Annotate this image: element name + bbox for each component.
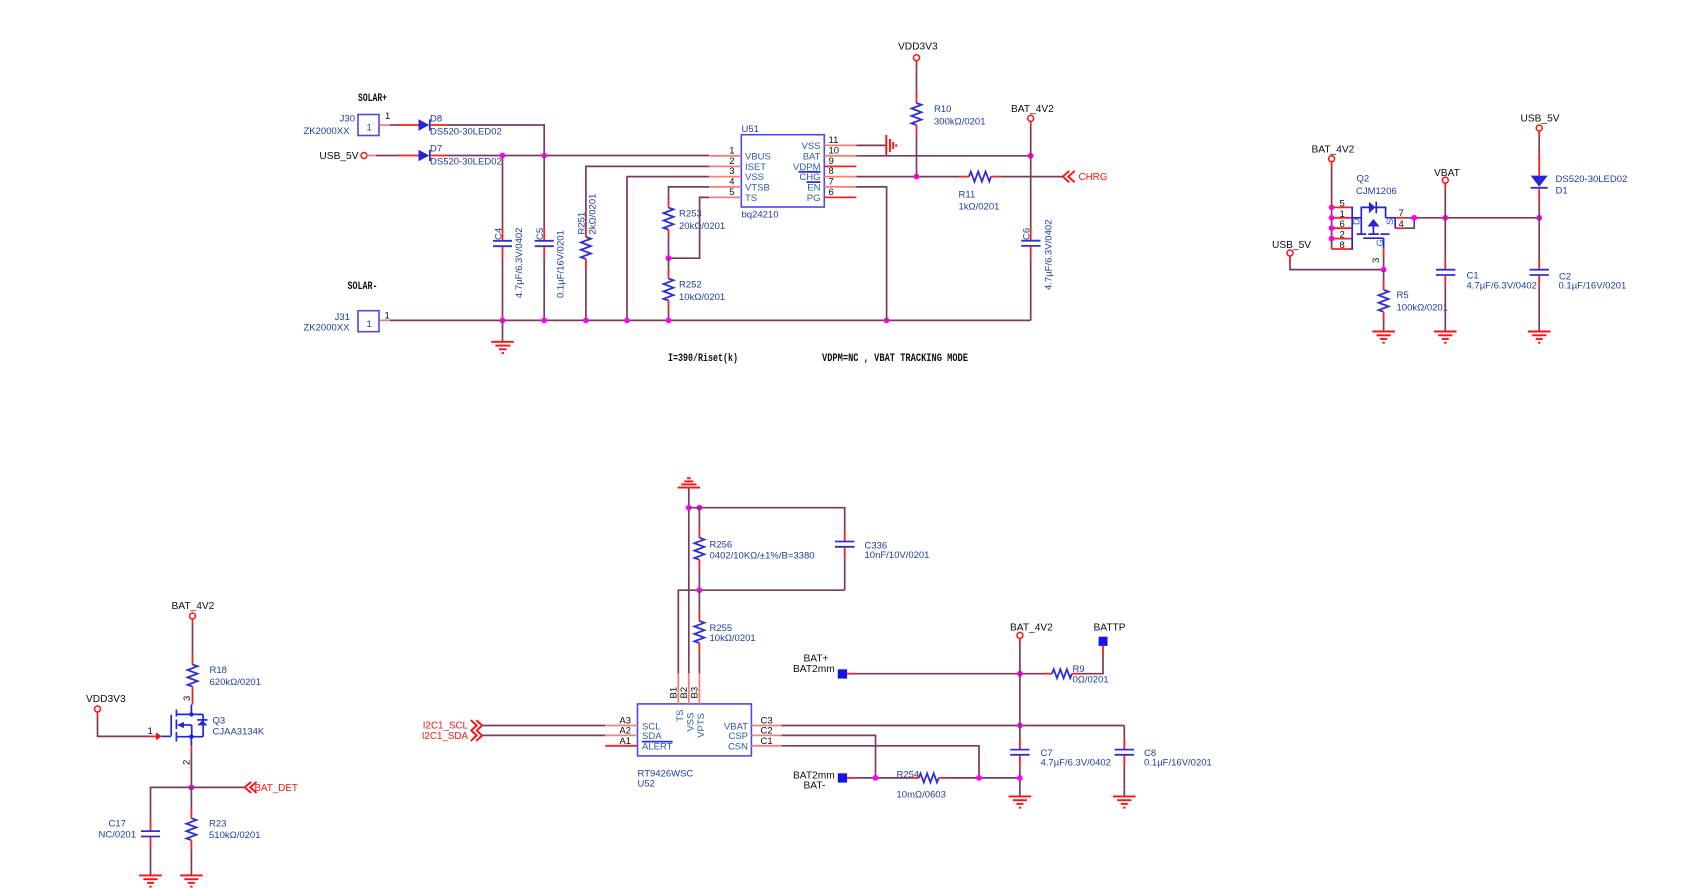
connector J31	[304, 311, 380, 334]
wire VBAT down	[1444, 183, 1446, 259]
svg-text:R253: R253	[679, 209, 702, 220]
wire top loop to C336	[689, 508, 845, 531]
svg-text:VDD3V3: VDD3V3	[86, 694, 126, 705]
wire Q2 source to VBAT/D1	[1405, 217, 1539, 219]
port I2C1_SDA	[422, 730, 482, 742]
svg-text:U51: U51	[742, 124, 759, 135]
junction	[1329, 236, 1335, 242]
junction	[697, 505, 703, 511]
junction	[666, 318, 672, 324]
svg-text:5: 5	[1340, 198, 1345, 209]
svg-text:VDPM=NC , VBAT TRACKING MODE: VDPM=NC , VBAT TRACKING MODE	[822, 353, 968, 365]
svg-text:BAT: BAT	[803, 151, 821, 162]
svg-text:R18: R18	[210, 665, 227, 676]
junction	[1536, 215, 1542, 221]
svg-text:USB_5V: USB_5V	[1272, 240, 1311, 251]
wire R11 to CHRG port	[1002, 176, 1063, 178]
svg-text:VPTS: VPTS	[696, 713, 707, 738]
capacitor C336	[835, 530, 929, 590]
junction	[624, 318, 630, 324]
resistor R253	[664, 198, 726, 259]
junction	[873, 775, 879, 781]
svg-text:Q2: Q2	[1357, 174, 1370, 185]
ground below C7	[1009, 796, 1032, 807]
svg-text:bq24210: bq24210	[742, 210, 779, 221]
pin numbers A3 A2 A1	[619, 716, 631, 747]
svg-text:VDD3V3: VDD3V3	[898, 42, 938, 53]
svg-text:NC/0201: NC/0201	[99, 830, 137, 841]
junction	[1017, 723, 1023, 729]
wire USB_5V to D7	[367, 155, 376, 157]
svg-text:I=390/Riset(k): I=390/Riset(k)	[668, 353, 738, 365]
svg-text:VSS: VSS	[801, 141, 820, 152]
junction	[500, 318, 506, 324]
resistor R252	[664, 258, 726, 320]
node BAT- pad	[793, 770, 857, 791]
port CHRG	[1063, 171, 1108, 183]
pin names SCL SDA ALERT	[642, 721, 673, 752]
svg-text:C4: C4	[494, 228, 505, 240]
junction	[541, 318, 547, 324]
ground below C17	[139, 875, 162, 886]
wire BAT_4V2 down to Q2 pins	[1331, 162, 1333, 249]
pin numbers left U51	[729, 145, 734, 198]
svg-text:ALERT: ALERT	[642, 742, 673, 753]
capacitor C1	[1436, 259, 1537, 331]
svg-text:CJM1206: CJM1206	[1356, 186, 1397, 197]
svg-text:R5: R5	[1397, 290, 1409, 301]
svg-text:1: 1	[367, 319, 372, 330]
wire pin4 to pin7 join	[1405, 218, 1414, 228]
pin A2 stub	[605, 734, 637, 736]
svg-text:BAT_4V2: BAT_4V2	[1010, 623, 1053, 634]
pin numbers right U51	[829, 135, 840, 198]
svg-text:USB_5V: USB_5V	[1521, 113, 1560, 124]
pin B2 stub	[688, 673, 690, 704]
capacitor C8	[1115, 726, 1212, 796]
svg-text:11: 11	[829, 135, 839, 146]
svg-text:0.1µF/16V/0201: 0.1µF/16V/0201	[1144, 757, 1212, 768]
wire J30 to D8	[390, 124, 399, 126]
svg-text:8: 8	[1340, 240, 1345, 251]
svg-text:20kΩ/0201: 20kΩ/0201	[679, 221, 725, 232]
svg-text:TS: TS	[675, 710, 686, 722]
svg-text:J30: J30	[340, 114, 355, 125]
svg-text:510kΩ/0201: 510kΩ/0201	[209, 830, 260, 841]
ground below C1	[1434, 332, 1457, 343]
svg-text:SOLAR+: SOLAR+	[358, 93, 387, 105]
ground (inverted, above)	[678, 478, 700, 487]
resistor R9	[1044, 664, 1109, 686]
pin A3 stub	[605, 725, 637, 727]
junction	[1381, 267, 1387, 273]
wire SDA	[482, 734, 605, 736]
power USB_5V right	[1521, 113, 1560, 131]
svg-text:100kΩ/0201: 100kΩ/0201	[1397, 302, 1448, 313]
resistor R10	[912, 61, 986, 177]
wire BAT- to R254	[857, 777, 911, 779]
pin names TS VSS VPTS	[675, 710, 707, 738]
pin 1 VBUS	[709, 155, 741, 157]
source side	[1386, 217, 1396, 219]
junction	[541, 153, 547, 159]
junction	[697, 587, 703, 593]
svg-text:SOLAR-: SOLAR-	[348, 281, 378, 293]
power VBAT	[1434, 168, 1460, 183]
svg-text:PG: PG	[807, 193, 821, 204]
svg-text:C2: C2	[761, 726, 773, 737]
pin 1 stub	[1332, 217, 1353, 219]
ground below C2	[1528, 332, 1551, 343]
wire BAT_4V2 down	[1019, 638, 1021, 725]
svg-text:B3: B3	[690, 687, 701, 699]
ground below R5	[1372, 332, 1395, 343]
svg-text:C6: C6	[1022, 228, 1033, 240]
power VDD3V3	[898, 42, 938, 61]
resistor R23	[186, 787, 260, 874]
junction	[914, 174, 920, 180]
svg-text:C5: C5	[535, 228, 546, 240]
pin names left U51	[745, 151, 771, 204]
junction	[1442, 215, 1448, 221]
body diode arrow	[1367, 219, 1379, 227]
pin 6 PG (NC)	[824, 196, 856, 198]
resistor R11	[959, 172, 1002, 213]
svg-text:0Ω/0201: 0Ω/0201	[1073, 674, 1109, 685]
wire pin8 CHG to R11	[856, 176, 958, 178]
port I2C1_SCL	[423, 720, 482, 732]
svg-text:10: 10	[829, 145, 840, 156]
wire pin11 to ground	[856, 144, 886, 146]
svg-text:7: 7	[829, 176, 834, 187]
wire Q3 source down	[190, 753, 192, 788]
svg-text:D8: D8	[430, 114, 442, 125]
port BAT_DET	[191, 782, 297, 794]
svg-text:D1: D1	[1556, 186, 1568, 197]
svg-text:R254: R254	[897, 770, 920, 781]
ground below R23	[180, 875, 203, 886]
svg-text:1: 1	[385, 311, 390, 322]
svg-text:0.1µF/16V/0201: 0.1µF/16V/0201	[556, 230, 567, 298]
svg-text:C1: C1	[761, 736, 773, 747]
svg-text:1: 1	[729, 145, 734, 156]
svg-text:5: 5	[729, 187, 734, 198]
pin 1 arrow into gate	[148, 726, 162, 740]
svg-text:10kΩ/0201: 10kΩ/0201	[710, 633, 756, 644]
junction	[1329, 225, 1335, 231]
capacitor C4	[493, 156, 525, 321]
junction	[1411, 215, 1417, 221]
wire BAT_4V2 down	[1030, 121, 1032, 229]
ground (right-facing) at U51 VSS	[886, 135, 896, 156]
svg-text:4.7µF/6.3V/0402: 4.7µF/6.3V/0402	[1041, 757, 1111, 768]
svg-text:1: 1	[1340, 209, 1345, 220]
svg-text:2kΩ/0201: 2kΩ/0201	[587, 194, 598, 235]
junction	[1017, 775, 1023, 781]
power BAT_4V2	[1312, 145, 1355, 162]
svg-text:A2: A2	[619, 726, 631, 737]
svg-text:4.7µF/6.3V/0402: 4.7µF/6.3V/0402	[1467, 281, 1537, 292]
transistor Q3 CJAA3134K	[161, 705, 265, 746]
svg-text:I2C1_SDA: I2C1_SDA	[422, 731, 469, 742]
svg-text:VSS: VSS	[685, 713, 696, 732]
svg-text:BAT2mm: BAT2mm	[793, 664, 835, 675]
svg-text:R252: R252	[679, 280, 702, 291]
pin 2 stub	[1332, 238, 1353, 240]
junction	[500, 153, 506, 159]
svg-text:6: 6	[1340, 219, 1345, 230]
svg-text:620kΩ/0201: 620kΩ/0201	[210, 677, 261, 688]
svg-text:R10: R10	[934, 104, 951, 115]
pin 1 of J30	[380, 124, 391, 126]
ground below C8	[1113, 796, 1136, 807]
svg-text:CSP: CSP	[728, 731, 748, 742]
wire C7 to ground	[1019, 778, 1021, 796]
capacitor C6	[1021, 220, 1054, 321]
power VDD3V3	[86, 694, 126, 712]
svg-text:4: 4	[729, 176, 734, 187]
svg-text:R251: R251	[576, 212, 587, 235]
pin C3 stub	[751, 725, 781, 727]
resistor R255	[694, 590, 755, 673]
pin 9 VDPM (NC)	[824, 165, 856, 167]
transistor Q2 CJM1206	[1332, 174, 1405, 270]
svg-text:1: 1	[385, 111, 390, 122]
svg-text:R256: R256	[710, 540, 733, 551]
svg-text:ZK2000XX: ZK2000XX	[304, 323, 351, 334]
pin 7 stub	[1395, 217, 1405, 219]
node BATTP pad	[1094, 623, 1126, 656]
svg-text:0.1µF/16V/0201: 0.1µF/16V/0201	[1559, 280, 1627, 291]
junction	[189, 785, 195, 791]
junction	[1017, 671, 1023, 677]
power BAT_4V2 bottom	[1010, 623, 1053, 639]
svg-text:BAT_4V2: BAT_4V2	[172, 601, 215, 612]
pin names right U51	[793, 141, 821, 204]
junction	[1329, 215, 1335, 221]
drain bracket	[1351, 207, 1353, 250]
pin 8 stub	[1332, 248, 1353, 250]
svg-text:J31: J31	[335, 312, 350, 323]
wire SCL	[482, 725, 605, 727]
pin C1 stub	[751, 745, 781, 747]
svg-text:A1: A1	[619, 736, 631, 747]
svg-text:S: S	[1385, 219, 1396, 225]
IC U52 RT9426WSC	[638, 704, 752, 789]
diode D1	[1531, 131, 1628, 260]
svg-text:Q3: Q3	[213, 716, 226, 727]
pin 6 stub	[1332, 227, 1353, 229]
junction	[884, 318, 890, 324]
wire pin10 BAT to BAT_4V2	[856, 155, 1030, 157]
wire CSN to shunt right	[782, 746, 979, 778]
diode D7	[398, 144, 502, 168]
svg-text:VBUS: VBUS	[745, 151, 771, 162]
capacitor C2	[1530, 259, 1627, 331]
svg-text:4.7µF/6.3V/0402: 4.7µF/6.3V/0402	[514, 228, 525, 298]
svg-text:1: 1	[367, 123, 372, 134]
pin names VBAT CSP CSN	[724, 721, 748, 752]
svg-text:0402/10KΩ/±1%/B=3380: 0402/10KΩ/±1%/B=3380	[710, 551, 815, 562]
pin 1 of J31	[380, 319, 391, 321]
connector J30	[304, 114, 380, 138]
capacitor C7	[1010, 726, 1111, 778]
svg-text:TS: TS	[745, 193, 757, 204]
resistor R251	[576, 166, 709, 320]
junction	[686, 505, 692, 511]
junction	[1329, 205, 1335, 211]
IC U51 bq24210	[741, 124, 824, 221]
svg-text:BAT+: BAT+	[804, 654, 829, 665]
svg-text:1kΩ/0201: 1kΩ/0201	[959, 202, 1000, 213]
channel dashes	[1357, 233, 1367, 235]
wire ground rail	[390, 319, 1031, 321]
svg-text:CJAA3134K: CJAA3134K	[213, 727, 265, 738]
wire U51 VTSB pin4 to R253	[669, 187, 710, 199]
svg-text:I2C1_SCL: I2C1_SCL	[423, 721, 469, 732]
wire R9 to BATTP	[1080, 655, 1103, 674]
power USB_5V left	[1272, 240, 1311, 256]
svg-text:VTSB: VTSB	[745, 182, 770, 193]
junction	[976, 775, 982, 781]
pin 10 BAT	[824, 155, 856, 157]
svg-text:DS520-30LED02: DS520-30LED02	[1556, 174, 1628, 185]
svg-text:3: 3	[1371, 258, 1382, 263]
pin 3 stub	[192, 697, 194, 705]
node BAT+ pad	[793, 654, 857, 679]
svg-text:SDA: SDA	[642, 731, 662, 742]
pin 7 EN	[824, 186, 856, 188]
wire CSP to shunt left	[782, 735, 876, 778]
resistor R18	[188, 619, 261, 698]
junction	[583, 318, 589, 324]
wire ground stem down to U52 VSS	[688, 489, 690, 674]
pin A1 stub (NC)	[605, 745, 637, 747]
wire U51 VSS pin3 to rail	[627, 177, 709, 321]
wire D8 cathode to USB_5V net corner	[448, 125, 544, 156]
pin 8 CHG	[824, 176, 856, 178]
svg-text:4: 4	[1399, 219, 1404, 230]
svg-text:2: 2	[1340, 230, 1345, 241]
wire BAT+ to BAT_4V2	[857, 673, 1044, 675]
svg-text:G: G	[1375, 239, 1386, 246]
top diode of Q2	[1369, 202, 1376, 214]
pin 2 ISET	[709, 165, 741, 167]
svg-text:D7: D7	[430, 144, 442, 155]
pin numbers B1 B2 B3	[668, 687, 700, 699]
ground	[491, 320, 514, 353]
power BAT_4V2 top	[1011, 104, 1054, 121]
svg-text:R11: R11	[959, 190, 976, 201]
svg-text:C17: C17	[109, 819, 126, 830]
pin 5 TS	[709, 196, 741, 198]
pin 2 stub	[190, 746, 192, 753]
svg-text:10kΩ/0201: 10kΩ/0201	[679, 292, 725, 303]
power BAT_4V2	[172, 601, 215, 619]
svg-text:300kΩ/0201: 300kΩ/0201	[934, 117, 985, 128]
svg-text:ZK2000XX: ZK2000XX	[304, 126, 351, 137]
resistor R256	[694, 508, 814, 591]
svg-text:BAT_4V2: BAT_4V2	[1011, 104, 1054, 115]
pin 11 VSS	[824, 144, 856, 146]
pin C2 stub	[751, 734, 781, 736]
wire R254 to ground node	[947, 777, 1020, 779]
pin B3 stub	[698, 673, 700, 704]
capacitor C5	[535, 156, 567, 321]
svg-text:R23: R23	[209, 819, 226, 830]
svg-text:10mΩ/0603: 10mΩ/0603	[897, 790, 946, 801]
fet body	[1361, 207, 1385, 234]
svg-text:EN: EN	[807, 182, 820, 193]
diode D8	[398, 114, 502, 138]
junction	[1028, 153, 1034, 159]
svg-text:U52: U52	[638, 778, 655, 789]
svg-text:BATTP: BATTP	[1094, 623, 1126, 634]
svg-text:CSN: CSN	[728, 742, 748, 753]
wire U51 TS pin5 to R253/R252 junction	[669, 197, 710, 258]
wire TS loop	[678, 590, 844, 673]
svg-text:BAT_DET: BAT_DET	[255, 783, 298, 794]
svg-text:1: 1	[148, 726, 153, 737]
svg-text:6: 6	[829, 187, 834, 198]
svg-text:4.7µF/6.3V/0402: 4.7µF/6.3V/0402	[1044, 220, 1055, 290]
gate	[1363, 237, 1383, 239]
pin 5 stub	[1332, 206, 1353, 208]
svg-text:7: 7	[1399, 208, 1404, 219]
svg-text:USB_5V: USB_5V	[319, 151, 358, 162]
junction	[666, 255, 672, 261]
wire pin7 EN down to rail	[856, 187, 886, 321]
pin 3 stub	[1383, 249, 1385, 256]
svg-text:B2: B2	[679, 687, 690, 699]
pin 4 stub	[1395, 227, 1405, 229]
wire D7 to U51 VBUS	[448, 155, 709, 157]
svg-text:BAT-: BAT-	[804, 781, 826, 792]
pin 4 VTSB	[709, 186, 741, 188]
resistor R5	[1379, 270, 1448, 331]
resistor R254	[897, 770, 947, 801]
svg-text:10nF/10V/0201: 10nF/10V/0201	[865, 550, 930, 561]
svg-text:3: 3	[182, 696, 193, 701]
svg-text:DS520-30LED02: DS520-30LED02	[430, 127, 502, 138]
pin B1 stub	[677, 673, 679, 704]
svg-text:B1: B1	[668, 687, 679, 699]
svg-text:BAT_4V2: BAT_4V2	[1312, 145, 1355, 156]
wire VDD3V3 to gate	[98, 712, 149, 736]
svg-text:DS520-30LED02: DS520-30LED02	[430, 157, 502, 168]
wire USB_5V to gate / R5	[1290, 256, 1384, 270]
wire VBAT C3 net	[782, 725, 1125, 727]
pin numbers C3 C2 C1	[761, 716, 773, 747]
capacitor C17	[99, 787, 192, 874]
pin 3 VSS	[709, 176, 741, 178]
svg-text:CHRG: CHRG	[1079, 172, 1108, 183]
